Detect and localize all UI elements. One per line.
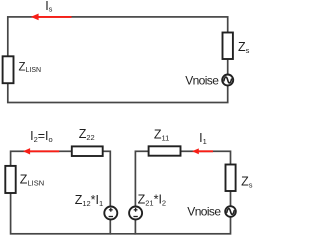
svg-text:ZLISN: ZLISN xyxy=(19,61,42,74)
svg-text:ZLISN: ZLISN xyxy=(20,173,44,188)
svg-text:Z12*I1: Z12*I1 xyxy=(75,193,104,208)
svg-text:Vnoise: Vnoise xyxy=(185,74,219,88)
svg-text:Vnoise: Vnoise xyxy=(187,205,221,219)
svg-text:Z21*I2: Z21*I2 xyxy=(138,192,167,207)
svg-text:Zs: Zs xyxy=(238,40,250,55)
svg-text:I1: I1 xyxy=(199,131,207,146)
svg-text:Zs: Zs xyxy=(241,174,253,189)
svg-text:Z22: Z22 xyxy=(79,127,95,142)
svg-text:Is: Is xyxy=(45,0,52,13)
svg-text:I2=Io: I2=Io xyxy=(30,129,53,144)
svg-text:Z11: Z11 xyxy=(154,127,169,142)
